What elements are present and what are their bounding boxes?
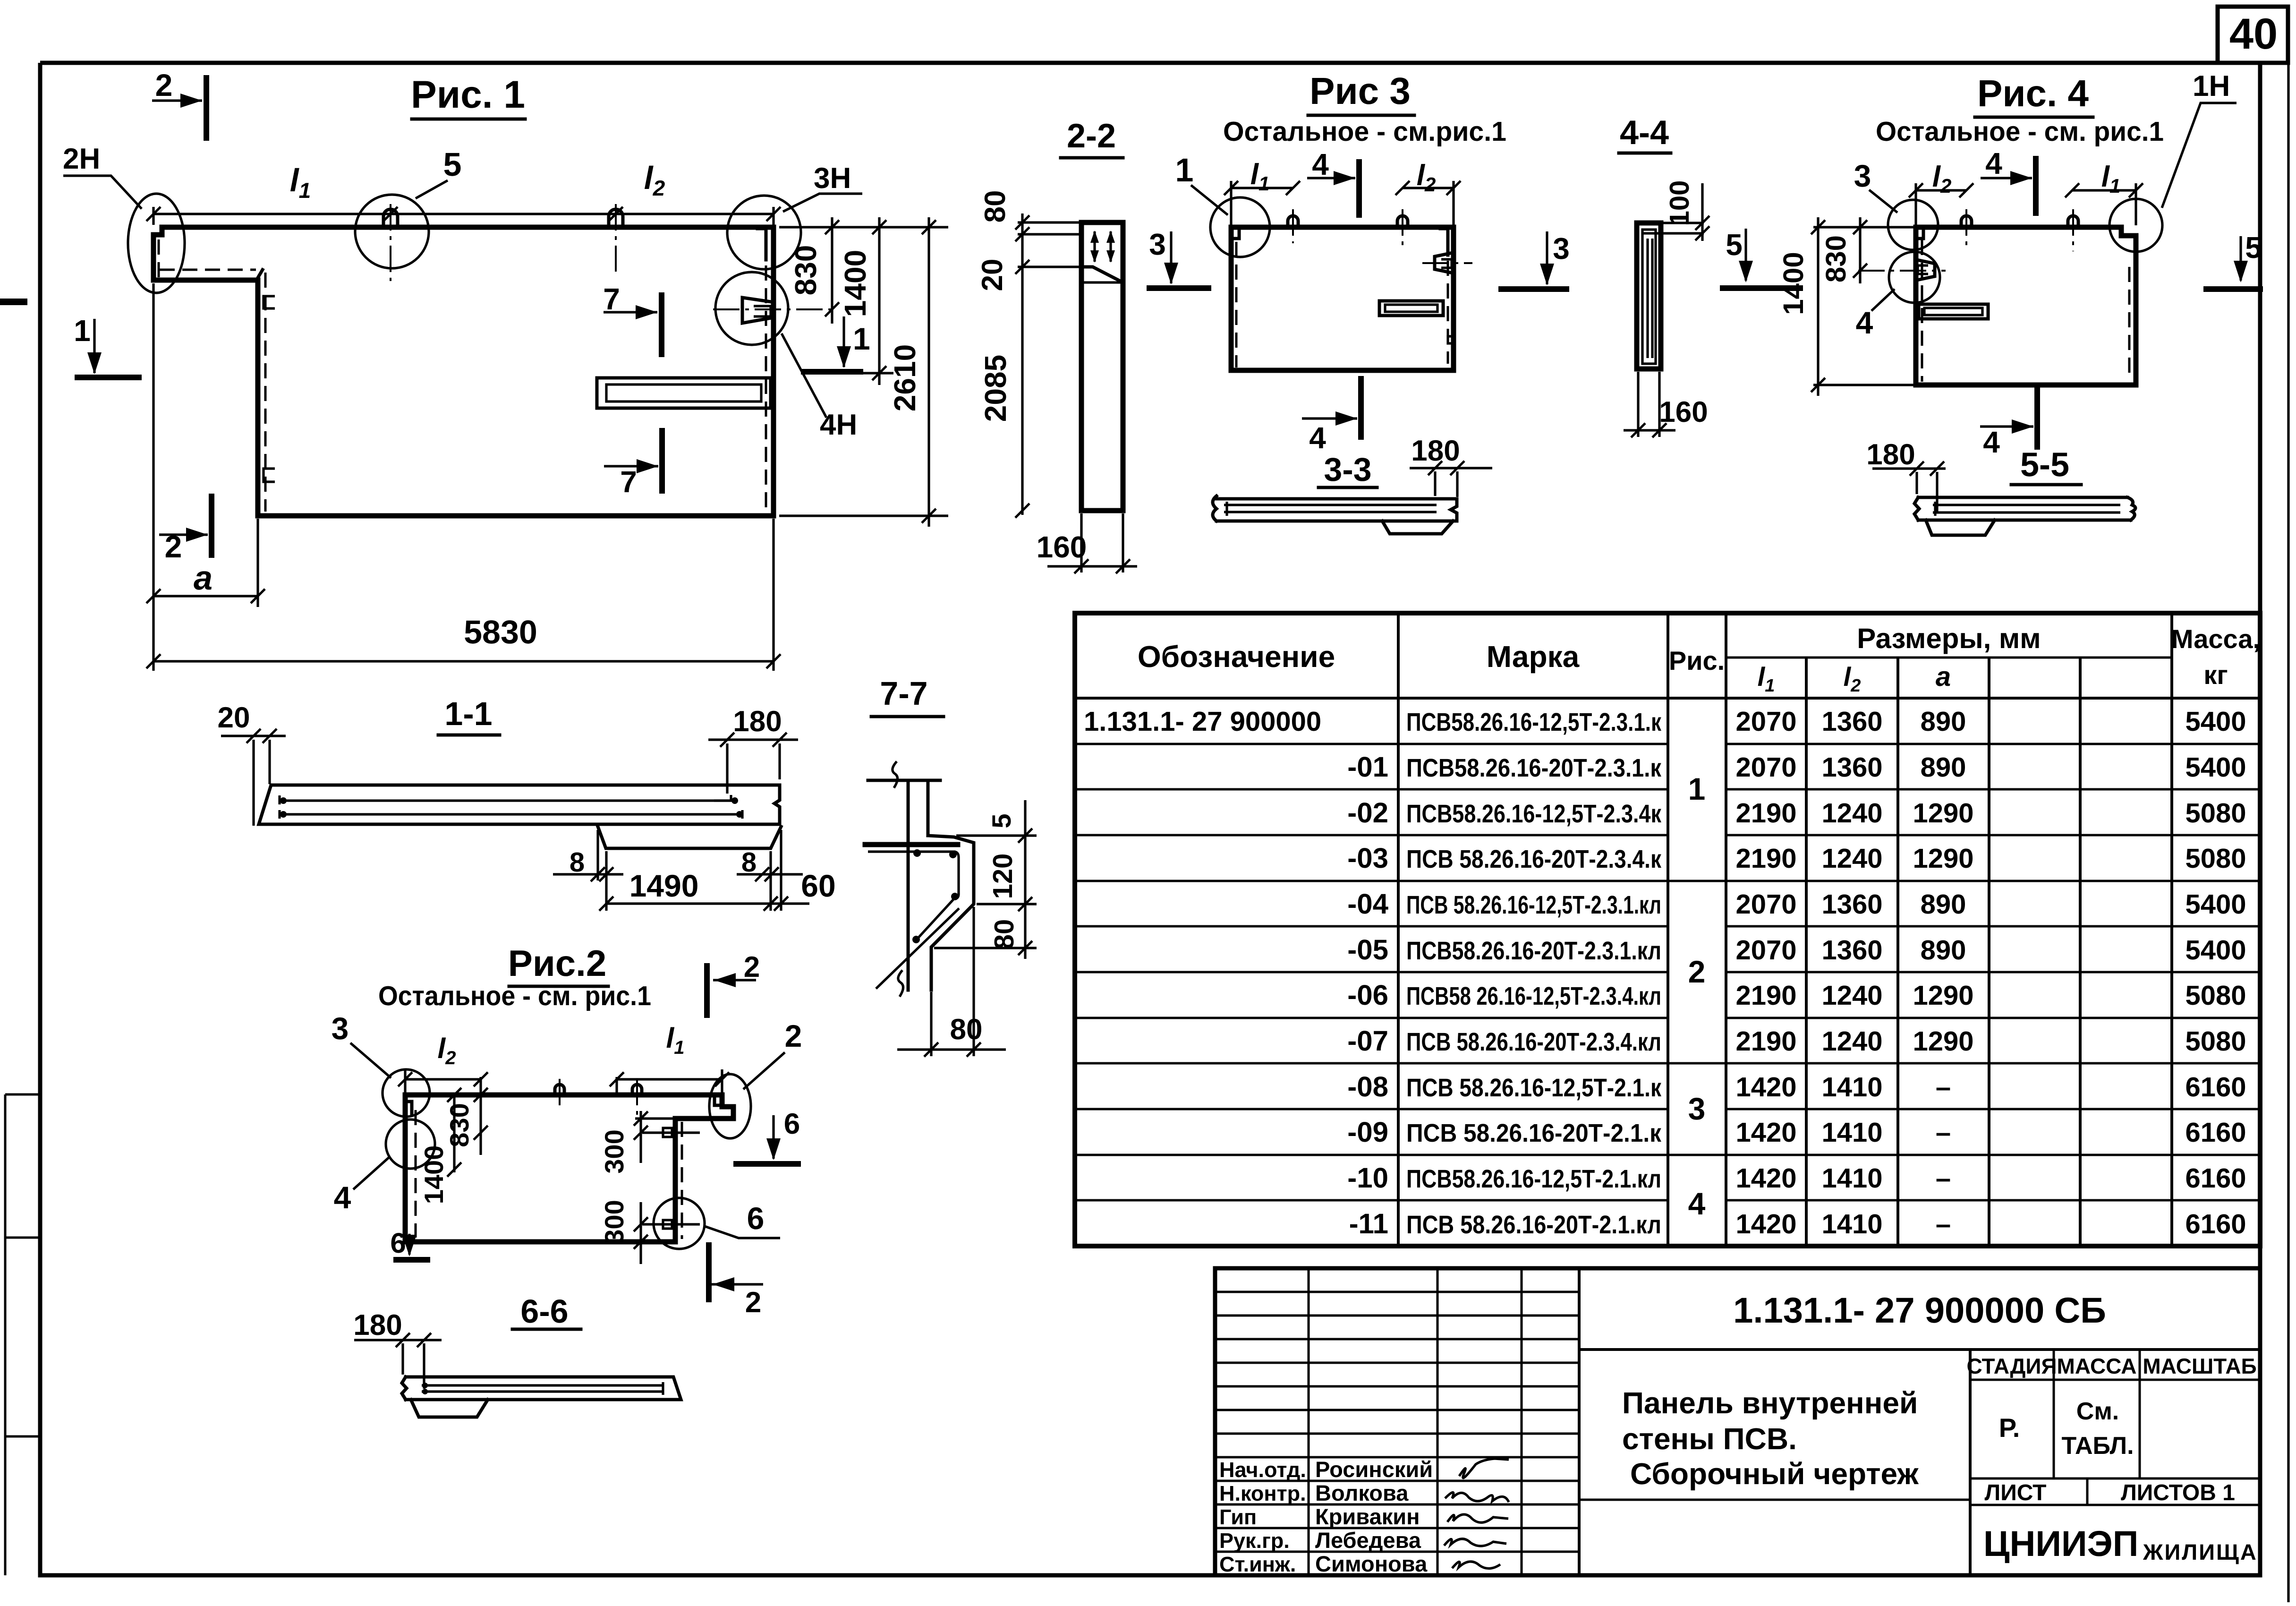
section 4-4 outline bbox=[1637, 223, 1661, 369]
svg-text:2070: 2070 bbox=[1735, 752, 1796, 783]
svg-text:1490: 1490 bbox=[629, 868, 699, 903]
svg-text:5400: 5400 bbox=[2185, 706, 2246, 737]
svg-text:6: 6 bbox=[747, 1201, 765, 1236]
callout 3 Рис.4 bbox=[1888, 200, 1938, 250]
svg-text:300: 300 bbox=[599, 1200, 629, 1244]
svg-text:Гип: Гип bbox=[1219, 1505, 1257, 1529]
svg-text:5: 5 bbox=[1726, 228, 1743, 262]
svg-text:6160: 6160 bbox=[2185, 1163, 2246, 1194]
callout 3Н bbox=[727, 196, 801, 269]
svg-text:1: 1 bbox=[1175, 152, 1194, 188]
svg-text:1: 1 bbox=[74, 314, 91, 348]
section 2-2 column outline bbox=[1081, 222, 1123, 511]
svg-text:160: 160 bbox=[1037, 530, 1087, 564]
Рис.4 lifting loops bbox=[1961, 216, 1972, 227]
svg-text:ЛИСТОВ 1: ЛИСТОВ 1 bbox=[2121, 1480, 2235, 1505]
svg-text:120: 120 bbox=[987, 854, 1018, 899]
svg-text:a: a bbox=[1936, 661, 1951, 692]
svg-text:Волкова: Волкова bbox=[1315, 1480, 1409, 1505]
svg-text:2190: 2190 bbox=[1735, 980, 1796, 1011]
corner rebate 2Н left bbox=[158, 239, 160, 278]
Рис.2 dimension 300 upper bbox=[635, 1117, 674, 1119]
svg-text:5: 5 bbox=[443, 146, 462, 183]
svg-text:ПСВ 58.26.16-20Т-2.3.4.кл: ПСВ 58.26.16-20Т-2.3.4.кл bbox=[1406, 1028, 1661, 1056]
svg-text:2610: 2610 bbox=[888, 344, 922, 411]
dimension 5830 bottom bbox=[772, 519, 774, 671]
section 6-6 slab bbox=[402, 1377, 681, 1400]
Рис.3 corner rebate right bbox=[1440, 229, 1448, 255]
callout 2Н bbox=[128, 194, 185, 293]
svg-text:ПСВ58.26.16-12,5Т-2.1.кл: ПСВ58.26.16-12,5Т-2.1.кл bbox=[1406, 1165, 1661, 1193]
svg-text:–: – bbox=[1936, 1163, 1951, 1194]
svg-text:Н.контр.: Н.контр. bbox=[1219, 1481, 1306, 1505]
5-5 dimension 180 bbox=[1872, 467, 1946, 470]
section mark 4 bottom Рис.4 bbox=[2034, 389, 2040, 447]
svg-text:-10: -10 bbox=[1347, 1162, 1388, 1194]
svg-text:160: 160 bbox=[1659, 396, 1708, 428]
svg-text:5: 5 bbox=[986, 813, 1016, 828]
Рис.2 lifting loops bbox=[555, 1085, 564, 1095]
Рис.3 dimension l2 bbox=[1452, 181, 1454, 225]
callout 5 loop bbox=[355, 195, 429, 268]
Рис.2 dimension 1400 bbox=[453, 1095, 455, 1172]
svg-text:80: 80 bbox=[979, 190, 1012, 223]
4-4 dimension 160 bbox=[1637, 372, 1639, 437]
svg-text:ПСВ 58.26.16-20Т-2.3.4.к: ПСВ 58.26.16-20Т-2.3.4.к bbox=[1406, 845, 1662, 873]
svg-text:2190: 2190 bbox=[1735, 1026, 1796, 1057]
svg-text:1290: 1290 bbox=[1913, 1026, 1973, 1057]
svg-text:1420: 1420 bbox=[1735, 1209, 1796, 1239]
svg-text:-02: -02 bbox=[1347, 797, 1388, 829]
svg-text:2: 2 bbox=[155, 68, 173, 103]
svg-text:5830: 5830 bbox=[464, 614, 537, 650]
svg-text:5400: 5400 bbox=[2185, 935, 2246, 965]
svg-text:2070: 2070 bbox=[1735, 889, 1796, 920]
svg-text:См.: См. bbox=[2076, 1398, 2119, 1425]
svg-text:60: 60 bbox=[801, 868, 835, 903]
svg-text:2: 2 bbox=[744, 951, 760, 983]
section mark 6 upper bbox=[736, 1161, 798, 1167]
doorway jamb hidden line bbox=[264, 273, 267, 512]
svg-text:Остальное - см. рис.1: Остальное - см. рис.1 bbox=[378, 981, 651, 1011]
sheet row bbox=[1970, 1478, 2260, 1480]
svg-text:1: 1 bbox=[853, 321, 870, 356]
svg-text:ПСВ 58.26.16-12,5Т-2.3.1.кл: ПСВ 58.26.16-12,5Т-2.3.1.кл bbox=[1406, 891, 1661, 919]
svg-text:3: 3 bbox=[1688, 1091, 1706, 1126]
svg-text:7: 7 bbox=[620, 465, 637, 499]
svg-text:5400: 5400 bbox=[2185, 889, 2246, 920]
svg-text:300: 300 bbox=[599, 1129, 629, 1173]
svg-text:4: 4 bbox=[1309, 421, 1326, 455]
7-7 break squiggles bbox=[893, 761, 898, 788]
Рис.3 corner rebate left bbox=[1232, 229, 1239, 239]
svg-text:3Н: 3Н bbox=[814, 162, 851, 195]
svg-text:20: 20 bbox=[976, 259, 1009, 291]
panel outline Рис.1 bbox=[153, 227, 774, 516]
Рис.3 lifting loops bbox=[1288, 216, 1298, 227]
jamb insert mark upper bbox=[264, 296, 275, 308]
svg-text:Ст.инж.: Ст.инж. bbox=[1219, 1552, 1296, 1576]
section 5-5 slab bbox=[1914, 497, 2131, 520]
svg-text:ПСВ58.26.16-12,5Т-2.3.4к: ПСВ58.26.16-12,5Т-2.3.4к bbox=[1406, 800, 1662, 828]
section mark 2 upper Рис.2 bbox=[704, 966, 710, 1015]
svg-text:830: 830 bbox=[1820, 235, 1852, 282]
svg-text:7-7: 7-7 bbox=[880, 675, 927, 712]
svg-text:6: 6 bbox=[784, 1108, 800, 1140]
section mark 6 left bbox=[396, 1257, 427, 1263]
sheet number box 40 bbox=[2218, 7, 2288, 63]
section mark 5 left bbox=[1723, 285, 1800, 291]
svg-text:Росинский: Росинский bbox=[1315, 1457, 1433, 1482]
svg-text:Обозначение: Обозначение bbox=[1138, 640, 1335, 674]
svg-text:1360: 1360 bbox=[1821, 706, 1882, 737]
svg-text:2190: 2190 bbox=[1735, 843, 1796, 874]
outer sheet border right bbox=[2287, 7, 2289, 1602]
svg-text:Остальное - см.рис.1: Остальное - см.рис.1 bbox=[1223, 116, 1506, 147]
7-7 slab edge thick bbox=[865, 842, 958, 847]
7-7 rebar dots bbox=[913, 849, 921, 857]
svg-text:5080: 5080 bbox=[2185, 798, 2246, 829]
1-1 reinforcement bars bbox=[281, 799, 737, 802]
svg-text:180: 180 bbox=[733, 705, 782, 738]
svg-text:–: – bbox=[1936, 1117, 1951, 1148]
svg-text:1.131.1- 27 900000 СБ: 1.131.1- 27 900000 СБ bbox=[1733, 1290, 2106, 1331]
7-7 inner lines bbox=[868, 852, 959, 939]
section mark 4 top Рис.3 bbox=[1356, 162, 1362, 215]
svg-text:5: 5 bbox=[2245, 231, 2262, 265]
section 7-7 wall profile bbox=[868, 780, 974, 990]
Рис.2 anchor upper bbox=[663, 1128, 672, 1137]
svg-text:890: 890 bbox=[1921, 935, 1966, 965]
svg-text:1.131.1- 27 900000: 1.131.1- 27 900000 bbox=[1084, 706, 1321, 737]
svg-text:–: – bbox=[1936, 1072, 1951, 1102]
svg-text:1410: 1410 bbox=[1821, 1209, 1882, 1239]
electrical groove Рис.1 bbox=[597, 378, 771, 408]
lifting loop right bbox=[609, 209, 623, 227]
svg-text:МАССА: МАССА bbox=[2057, 1354, 2137, 1378]
callout 1 bbox=[1210, 197, 1270, 257]
svg-text:-04: -04 bbox=[1347, 888, 1388, 920]
2-2 anchor arrows bbox=[1093, 231, 1096, 262]
dimension 1400 right bbox=[862, 372, 893, 374]
svg-text:1: 1 bbox=[1688, 771, 1706, 806]
svg-text:3: 3 bbox=[1149, 227, 1166, 261]
section 1-1 slab bbox=[259, 785, 780, 824]
svg-text:3: 3 bbox=[1553, 231, 1570, 265]
svg-text:1360: 1360 bbox=[1821, 889, 1882, 920]
svg-text:a: a bbox=[194, 559, 213, 597]
svg-text:2190: 2190 bbox=[1735, 798, 1796, 829]
svg-text:МАСШТАБ: МАСШТАБ bbox=[2143, 1354, 2256, 1378]
Рис.2 anchor lower bbox=[663, 1220, 672, 1229]
scan artifact mark left edge bbox=[0, 299, 27, 305]
svg-text:2-2: 2-2 bbox=[1067, 117, 1116, 155]
svg-text:4: 4 bbox=[1688, 1186, 1706, 1221]
svg-text:1240: 1240 bbox=[1821, 798, 1882, 829]
2-2 dimension 160 bbox=[1080, 513, 1082, 572]
svg-text:СТАДИЯ: СТАДИЯ bbox=[1966, 1354, 2057, 1378]
svg-text:1410: 1410 bbox=[1821, 1163, 1882, 1194]
Рис.4 left corner detail bbox=[1917, 229, 1923, 239]
section mark 3 left bbox=[1149, 285, 1208, 291]
svg-text:7: 7 bbox=[603, 282, 620, 316]
Рис.2 corner rebate left bbox=[405, 1102, 412, 1115]
svg-text:-05: -05 bbox=[1347, 934, 1388, 965]
svg-text:ПСВ 58.26.16-12,5Т-2.1.к: ПСВ 58.26.16-12,5Т-2.1.к bbox=[1406, 1074, 1662, 1102]
svg-text:5080: 5080 bbox=[2185, 1026, 2246, 1057]
svg-text:6-6: 6-6 bbox=[520, 1293, 568, 1330]
svg-text:1290: 1290 bbox=[1913, 843, 1973, 874]
Рис.4 groove bbox=[1919, 304, 1988, 319]
svg-text:–: – bbox=[1936, 1209, 1951, 1239]
svg-text:-09: -09 bbox=[1347, 1116, 1388, 1148]
doorway header dashed line bbox=[160, 269, 256, 271]
lifting loop 5 left bbox=[383, 209, 398, 227]
svg-text:2: 2 bbox=[745, 1286, 761, 1319]
svg-text:Рук.гр.: Рук.гр. bbox=[1219, 1529, 1290, 1553]
section mark 2 top bbox=[204, 78, 209, 138]
3-3 bottom key bbox=[1382, 521, 1453, 534]
svg-text:4: 4 bbox=[1856, 305, 1873, 340]
svg-text:1290: 1290 bbox=[1913, 798, 1973, 829]
svg-text:-03: -03 bbox=[1347, 842, 1388, 874]
panel outline Рис.4 bbox=[1916, 227, 2136, 385]
Рис.2 corner rebate right bbox=[714, 1096, 722, 1105]
svg-text:Остальное - см. рис.1: Остальное - см. рис.1 bbox=[1876, 116, 2164, 147]
2-2 head detail bbox=[1081, 267, 1123, 282]
svg-text:2: 2 bbox=[165, 529, 182, 564]
panel outline Рис.2 bbox=[405, 1095, 733, 1242]
panel outline Рис.3 bbox=[1231, 227, 1454, 370]
svg-text:6: 6 bbox=[390, 1227, 406, 1259]
svg-text:6160: 6160 bbox=[2185, 1072, 2246, 1102]
Рис.4 corner rebate 1Н bbox=[2128, 267, 2131, 380]
callout 4Н bbox=[715, 272, 788, 345]
svg-text:890: 890 bbox=[1921, 889, 1966, 920]
1-1 bottom key bbox=[598, 827, 781, 848]
callout 6 Рис.2 bbox=[654, 1198, 705, 1249]
svg-text:Кривакин: Кривакин bbox=[1315, 1504, 1420, 1529]
callout 4 Рис.2 bbox=[386, 1119, 435, 1169]
Рис.2 dimension 300 lower bbox=[639, 1202, 642, 1264]
svg-text:Нач.отд.: Нач.отд. bbox=[1219, 1458, 1306, 1482]
Рис.4 dimension l1 bbox=[2134, 183, 2137, 225]
section mark 7 lower bbox=[659, 431, 665, 491]
signatures scribbles bbox=[1459, 1459, 1509, 1478]
svg-text:ЖИЛИЩА: ЖИЛИЩА bbox=[2143, 1539, 2258, 1564]
svg-text:-11: -11 bbox=[1349, 1208, 1388, 1239]
left margin column boxes bbox=[5, 1094, 40, 1575]
svg-text:ПСВ58 26.16-12,5Т-2.3.4.кл: ПСВ58 26.16-12,5Т-2.3.4.кл bbox=[1406, 982, 1661, 1010]
svg-text:8: 8 bbox=[570, 847, 585, 878]
svg-text:Рис. 4: Рис. 4 bbox=[1977, 72, 2089, 114]
2-2 dimensions 80 20 2085 bbox=[1018, 221, 1079, 223]
section mark 7 upper bbox=[659, 295, 664, 354]
svg-text:ЛИСТ: ЛИСТ bbox=[1985, 1480, 2047, 1505]
svg-text:-07: -07 bbox=[1347, 1025, 1388, 1057]
svg-text:стены ПСВ.: стены ПСВ. bbox=[1622, 1422, 1797, 1456]
svg-text:Размеры, мм: Размеры, мм bbox=[1857, 623, 2041, 654]
anchor insert 4Н bbox=[742, 298, 774, 323]
svg-text:180: 180 bbox=[1866, 438, 1915, 471]
svg-text:4: 4 bbox=[334, 1180, 351, 1215]
svg-text:Масса,: Масса, bbox=[2171, 624, 2260, 654]
svg-text:1-1: 1-1 bbox=[444, 695, 492, 732]
svg-text:1240: 1240 bbox=[1821, 843, 1882, 874]
svg-text:ПСВ58.26.16-12,5Т-2.3.1.к: ПСВ58.26.16-12,5Т-2.3.1.к bbox=[1406, 708, 1662, 736]
svg-text:830: 830 bbox=[444, 1103, 474, 1147]
svg-text:-08: -08 bbox=[1347, 1071, 1388, 1102]
section mark 1 left bbox=[77, 375, 139, 380]
svg-text:1240: 1240 bbox=[1821, 1026, 1882, 1057]
svg-text:Рис. 1: Рис. 1 bbox=[411, 73, 525, 116]
Рис.3 edge mark right bbox=[1448, 336, 1454, 343]
svg-text:4: 4 bbox=[1312, 147, 1329, 181]
svg-text:-06: -06 bbox=[1347, 979, 1388, 1011]
svg-text:ЦНИИЭП: ЦНИИЭП bbox=[1983, 1524, 2138, 1564]
svg-text:890: 890 bbox=[1921, 706, 1966, 737]
section mark 2 bottom bbox=[209, 496, 214, 555]
svg-text:ПСВ 58.26.16-20Т-2.1.к: ПСВ 58.26.16-20Т-2.1.к bbox=[1406, 1119, 1662, 1147]
section mark 1 right bbox=[804, 369, 860, 375]
title name bbox=[1969, 1350, 1972, 1575]
svg-text:2070: 2070 bbox=[1735, 706, 1796, 737]
svg-text:2085: 2085 bbox=[978, 355, 1012, 422]
svg-text:1420: 1420 bbox=[1735, 1163, 1796, 1194]
7-7 diagonal break bbox=[876, 908, 959, 989]
svg-text:3: 3 bbox=[332, 1011, 349, 1046]
Рис.2 jamb hidden line bbox=[681, 1122, 683, 1239]
svg-text:1360: 1360 bbox=[1821, 935, 1882, 965]
svg-text:ПСВ58.26.16-20Т-2.3.1.кл: ПСВ58.26.16-20Т-2.3.1.кл bbox=[1406, 937, 1661, 965]
svg-text:1360: 1360 bbox=[1821, 752, 1882, 783]
svg-text:6160: 6160 bbox=[2185, 1209, 2246, 1239]
3-3 dimension 180 bbox=[1410, 467, 1492, 469]
svg-text:кг: кг bbox=[2203, 660, 2228, 690]
svg-text:Панель внутренней: Панель внутренней bbox=[1622, 1386, 1918, 1420]
corner rebate 3Н right bbox=[757, 229, 766, 260]
svg-text:1Н: 1Н bbox=[2193, 70, 2230, 103]
section mark 4 bottom Рис.3 bbox=[1358, 379, 1364, 437]
svg-text:40: 40 bbox=[2229, 10, 2278, 58]
Рис.4 dimension 1400 bbox=[1813, 226, 1856, 228]
svg-text:2070: 2070 bbox=[1735, 935, 1796, 965]
svg-text:4: 4 bbox=[1983, 425, 2000, 459]
dimension a bottom bbox=[152, 283, 154, 671]
svg-text:Рис.2: Рис.2 bbox=[508, 942, 606, 984]
svg-text:Марка: Марка bbox=[1487, 640, 1580, 674]
svg-text:6160: 6160 bbox=[2185, 1117, 2246, 1148]
svg-text:Лебедева: Лебедева bbox=[1315, 1528, 1421, 1553]
svg-text:830: 830 bbox=[789, 245, 823, 296]
svg-text:ТАБЛ.: ТАБЛ. bbox=[2061, 1432, 2134, 1460]
svg-text:ПСВ 58.26.16-20Т-2.1.кл: ПСВ 58.26.16-20Т-2.1.кл bbox=[1406, 1211, 1661, 1239]
document number bbox=[1579, 1348, 2260, 1351]
svg-text:Симонова: Симонова bbox=[1315, 1551, 1428, 1576]
callout 4 Рис.4 bbox=[1889, 252, 1940, 303]
svg-text:20: 20 bbox=[218, 701, 250, 734]
svg-text:4-4: 4-4 bbox=[1620, 114, 1669, 152]
dimension 830 right bbox=[779, 226, 948, 228]
svg-text:80: 80 bbox=[950, 1013, 983, 1046]
svg-text:80: 80 bbox=[989, 919, 1020, 950]
title block bbox=[1215, 1268, 2260, 1575]
5-5 bottom key bbox=[1926, 520, 1995, 535]
Рис.2 dimension l2 bbox=[404, 1070, 406, 1093]
svg-text:4: 4 bbox=[1985, 146, 2002, 180]
svg-text:5080: 5080 bbox=[2185, 980, 2246, 1011]
7-7 dimensions 5 120 80 bbox=[1024, 800, 1026, 959]
specification table bbox=[1075, 613, 2260, 1246]
svg-text:5400: 5400 bbox=[2185, 752, 2246, 783]
Рис.3 anchor insert right bbox=[1435, 253, 1453, 273]
svg-text:1410: 1410 bbox=[1821, 1072, 1882, 1102]
6-6 bottom key bbox=[411, 1400, 488, 1417]
svg-text:8: 8 bbox=[741, 847, 757, 878]
svg-text:100: 100 bbox=[1664, 180, 1695, 226]
4-4 dimension 100 bbox=[1637, 222, 1704, 224]
svg-text:5-5: 5-5 bbox=[2020, 446, 2069, 484]
Рис.4 dimension 830 bbox=[1856, 226, 1915, 228]
section mark 3 right bbox=[1501, 286, 1566, 292]
Рис.4 anchor insert left bbox=[1917, 260, 1935, 280]
svg-text:180: 180 bbox=[353, 1309, 402, 1341]
stage mass scale header bbox=[1970, 1379, 2260, 1381]
Рис.2 dimension l1 bbox=[721, 1069, 723, 1093]
svg-text:Сборочный чертеж: Сборочный чертеж bbox=[1630, 1457, 1919, 1491]
svg-text:1290: 1290 bbox=[1913, 980, 1973, 1011]
svg-text:890: 890 bbox=[1921, 752, 1966, 783]
7-7 dimension 80 bottom bbox=[930, 992, 932, 1056]
svg-text:Рис.: Рис. bbox=[1669, 646, 1725, 675]
jamb insert mark lower bbox=[264, 469, 275, 482]
svg-text:Р.: Р. bbox=[1999, 1413, 2020, 1443]
callout 3 Рис.2 bbox=[383, 1069, 430, 1117]
svg-text:1400: 1400 bbox=[838, 250, 872, 317]
svg-text:1420: 1420 bbox=[1735, 1117, 1796, 1148]
svg-text:1410: 1410 bbox=[1821, 1117, 1882, 1148]
svg-text:3: 3 bbox=[1854, 158, 1871, 193]
svg-text:1420: 1420 bbox=[1735, 1072, 1796, 1102]
svg-text:-01: -01 bbox=[1347, 751, 1388, 783]
svg-text:2: 2 bbox=[1688, 954, 1706, 989]
dimension l1 l2 top bbox=[153, 213, 774, 215]
svg-text:2: 2 bbox=[785, 1018, 802, 1053]
callout 1Н bbox=[2109, 199, 2162, 252]
svg-text:Рис 3: Рис 3 bbox=[1310, 70, 1411, 112]
Рис.3 dimension l1 bbox=[1230, 181, 1232, 225]
Рис.2 dimension 830 bbox=[479, 1077, 482, 1155]
svg-text:1240: 1240 bbox=[1821, 980, 1882, 1011]
section 3-3 slab bbox=[1216, 499, 1457, 521]
section mark 5 right bbox=[2206, 286, 2260, 292]
section mark 2 lower Рис.2 bbox=[706, 1245, 712, 1299]
section mark 4 top Рис.4 bbox=[2033, 159, 2039, 213]
svg-text:2Н: 2Н bbox=[63, 143, 100, 175]
svg-text:3-3: 3-3 bbox=[1324, 451, 1371, 488]
dimension 2610 right bbox=[779, 514, 948, 517]
svg-text:ПСВ58.26.16-20Т-2.3.1.к: ПСВ58.26.16-20Т-2.3.1.к bbox=[1406, 754, 1662, 782]
callout 2 Рис.2 bbox=[709, 1074, 751, 1138]
svg-text:180: 180 bbox=[1411, 435, 1460, 467]
Рис.3 groove bbox=[1379, 301, 1443, 316]
svg-text:5080: 5080 bbox=[2185, 843, 2246, 874]
svg-text:1400: 1400 bbox=[1777, 252, 1809, 315]
Рис.4 dimension l2 bbox=[1914, 183, 1917, 225]
